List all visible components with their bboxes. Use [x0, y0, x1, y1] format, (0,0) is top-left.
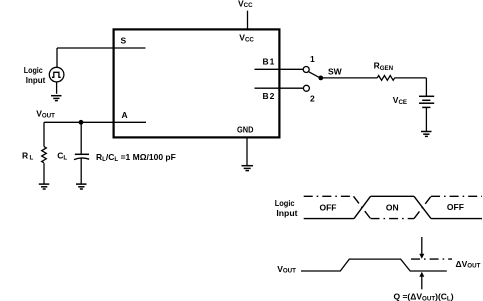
svg-text:OFF: OFF: [447, 202, 464, 212]
svg-text:RL/CL =1 MΩ/100 pF: RL/CL =1 MΩ/100 pF: [96, 152, 176, 163]
svg-text:GND: GND: [237, 124, 253, 134]
svg-text:2: 2: [310, 94, 315, 104]
svg-text:ON: ON: [386, 203, 399, 213]
svg-text:A: A: [122, 110, 128, 120]
svg-text:Input: Input: [276, 208, 297, 218]
svg-text:Logic: Logic: [24, 65, 43, 75]
svg-text:1: 1: [310, 54, 315, 64]
svg-text:OFF: OFF: [320, 203, 337, 213]
svg-text:VCC: VCC: [238, 0, 253, 9]
svg-text:Input: Input: [26, 75, 46, 85]
svg-text:B1: B1: [263, 56, 276, 66]
svg-text:SW: SW: [328, 67, 343, 77]
svg-text:B2: B2: [263, 91, 276, 101]
svg-text:S: S: [121, 35, 127, 45]
svg-text:Logic: Logic: [275, 198, 295, 208]
